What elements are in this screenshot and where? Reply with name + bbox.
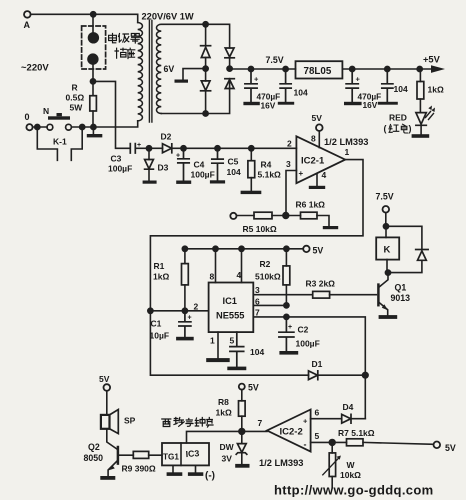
- svg-text:~220V: ~220V: [21, 63, 49, 74]
- svg-text:4: 4: [237, 270, 242, 280]
- resistor R1 1k: [153, 249, 188, 311]
- timer IC1 NE555: [209, 283, 254, 333]
- svg-text:R4: R4: [261, 160, 272, 170]
- svg-text:1kΩ: 1kΩ: [428, 84, 444, 94]
- LED RED: [412, 106, 435, 138]
- node: K-1 branch right: [80, 124, 85, 129]
- transformer core: [149, 21, 152, 123]
- svg-text:SP: SP: [124, 416, 136, 426]
- music IC TG1/IC3: [162, 443, 209, 465]
- node: bridge bottom left: [203, 111, 208, 116]
- svg-text:100µF: 100µF: [191, 170, 215, 180]
- wire: top wire to socket pin: [92, 14, 94, 32]
- wire: A to transformer primary top: [31, 14, 138, 22]
- op-amp U1b IC2-2: [258, 410, 311, 452]
- ground at bridge: [175, 69, 206, 83]
- diode D2: [149, 132, 184, 153]
- svg-text:C5: C5: [228, 157, 239, 167]
- svg-text:IC2-1: IC2-1: [301, 156, 325, 167]
- node: C3/D2/D3 junction: [146, 146, 151, 151]
- resistor R 0.5ohm 5W: [66, 81, 97, 126]
- svg-text:16V: 16V: [363, 100, 378, 110]
- diode bridge D-LB: [201, 81, 211, 91]
- svg-text:6: 6: [255, 297, 260, 307]
- svg-text:IC1: IC1: [223, 296, 237, 306]
- svg-text:Q1: Q1: [395, 283, 407, 293]
- node: R1/C1/pin2 junction: [182, 308, 187, 313]
- svg-text:100µF: 100µF: [108, 164, 132, 174]
- label: socket 电饭煲 插座: [109, 34, 140, 59]
- terminal: R5 input probe: [230, 213, 236, 219]
- ground IC3: [188, 465, 203, 476]
- svg-text:+5V: +5V: [423, 55, 441, 65]
- svg-text:NE555: NE555: [216, 311, 244, 321]
- capacitor 104 (input): [278, 66, 308, 104]
- pin 8 stub: [210, 249, 216, 283]
- resistor R3 2k: [306, 279, 377, 299]
- socket pin top: [88, 32, 99, 43]
- node: bridge mid left: [203, 66, 208, 71]
- diode bridge D-RT: [225, 48, 234, 58]
- svg-text:(-): (-): [205, 471, 215, 482]
- svg-text:8: 8: [210, 272, 215, 282]
- transistor Q2 8050: [84, 429, 118, 480]
- ground TG1: [167, 465, 183, 476]
- svg-text:220V/6V 1W: 220V/6V 1W: [142, 12, 194, 22]
- svg-text:R7 5.1kΩ: R7 5.1kΩ: [338, 428, 375, 438]
- capacitor C 470uF 16V (output): [344, 66, 381, 110]
- zener DW 3V: [220, 431, 250, 467]
- node: relay top: [383, 224, 388, 229]
- terminal 5V (555 rail): [303, 246, 323, 256]
- svg-text:A: A: [24, 20, 31, 30]
- resistor R5 10k: [237, 212, 301, 234]
- svg-text:R2: R2: [260, 259, 271, 269]
- svg-text:-: -: [304, 440, 307, 450]
- terminal 7.5V (relay): [376, 192, 394, 227]
- svg-text:TG1: TG1: [163, 453, 179, 462]
- svg-text:2: 2: [194, 302, 199, 312]
- svg-text:5V: 5V: [312, 113, 323, 123]
- wire: bridge right branch: [229, 58, 231, 89]
- node: pin4 top: [239, 246, 244, 251]
- wire: terminal 0 to switch N: [33, 126, 47, 128]
- capacitor 104 (output): [378, 66, 408, 104]
- potentiometer W 10k: [323, 442, 361, 487]
- node: pin7/C2: [284, 314, 289, 319]
- node: trigger line junction: [148, 308, 153, 313]
- svg-text:K: K: [384, 245, 391, 256]
- svg-text:3: 3: [255, 285, 260, 295]
- terminal 0: [25, 112, 33, 130]
- wire: signal line to op-amp: [184, 147, 297, 149]
- svg-text:+: +: [288, 324, 292, 331]
- svg-text:+: +: [137, 142, 141, 149]
- capacitor C2 100uF: [279, 317, 320, 355]
- label 西敏寺钟声: [162, 418, 213, 428]
- svg-text:C2: C2: [298, 325, 309, 335]
- node: pin8 top: [213, 246, 218, 251]
- svg-text:104: 104: [394, 84, 408, 94]
- svg-text:3V: 3V: [222, 454, 233, 464]
- wire: 7.5V rail: [230, 68, 432, 70]
- svg-text:7.5V: 7.5V: [376, 192, 394, 202]
- pin 6 wire: [311, 408, 342, 419]
- svg-text:+: +: [188, 315, 192, 322]
- wire: IC2-1 output to NE555 trigger: [150, 160, 363, 376]
- svg-text:1: 1: [210, 336, 215, 346]
- pin 7 wire: [253, 308, 286, 318]
- node: relay bottom / Q1 collector: [385, 270, 390, 275]
- node: R8/DW/IC3/pin7 junction: [239, 429, 245, 435]
- wire: 5V rail of NE555: [185, 248, 303, 250]
- diode D1: [309, 359, 366, 380]
- capacitor C5 104: [210, 146, 241, 184]
- svg-text:R9 390Ω: R9 390Ω: [122, 464, 156, 474]
- svg-text:IC2-2: IC2-2: [280, 427, 303, 438]
- svg-text:1: 1: [345, 147, 350, 157]
- svg-text:6V: 6V: [164, 64, 175, 74]
- svg-text:6: 6: [315, 408, 320, 418]
- svg-text:5.1kΩ: 5.1kΩ: [258, 170, 282, 180]
- socket pin bottom: [87, 53, 98, 64]
- svg-text:1kΩ: 1kΩ: [153, 272, 169, 282]
- svg-text:5V: 5V: [99, 374, 110, 384]
- node: pin5/R7/W junction: [329, 440, 335, 446]
- node: K-1 branch left: [35, 124, 40, 129]
- svg-text:DW: DW: [220, 442, 235, 452]
- socket (rice cooker) dashed box: [82, 26, 106, 69]
- svg-text:+: +: [356, 75, 361, 84]
- node: bridge top left: [203, 22, 208, 27]
- wire: secondary bottom to bridge: [161, 89, 229, 114]
- svg-text:): ): [409, 124, 412, 134]
- svg-text:D4: D4: [343, 402, 354, 412]
- svg-text:D3: D3: [158, 163, 169, 173]
- diode bridge D-LT: [201, 46, 211, 58]
- svg-text:510kΩ: 510kΩ: [255, 272, 281, 282]
- resistor R8 1k: [216, 390, 246, 432]
- svg-text:78L05: 78L05: [304, 66, 332, 77]
- node: R1 top: [182, 246, 187, 251]
- svg-text:W: W: [347, 460, 356, 470]
- speaker SP: [101, 410, 136, 434]
- node B: socket/R junction: [90, 79, 95, 84]
- capacitor C4 100uF: [176, 146, 215, 184]
- wire: bridge left branch: [205, 24, 207, 113]
- svg-text:1/2 LM393: 1/2 LM393: [324, 137, 368, 147]
- svg-text:10µF: 10µF: [150, 331, 170, 341]
- svg-text:+: +: [299, 169, 304, 178]
- svg-text:+: +: [254, 75, 259, 84]
- svg-text:C1: C1: [151, 319, 162, 329]
- pin 4 stub: [237, 249, 242, 283]
- node: R5/R6/pin3 junction: [283, 213, 289, 219]
- resistor R4 5.1k: [241, 146, 281, 194]
- svg-text:IC3: IC3: [185, 448, 199, 459]
- node: socket tap on top wire: [91, 12, 96, 17]
- svg-text:R3 2kΩ: R3 2kΩ: [306, 279, 336, 289]
- pin 3 wire to R3: [253, 285, 312, 295]
- pin 5 with capacitor 104: [227, 332, 264, 370]
- pin 3 wire of IC2-1: [286, 171, 296, 216]
- svg-text:100µF: 100µF: [296, 339, 320, 349]
- svg-text:R8: R8: [218, 397, 229, 407]
- transformer T secondary winding: [157, 24, 162, 113]
- svg-text:5V: 5V: [313, 246, 324, 256]
- +5V arrow: [423, 55, 445, 73]
- capacitor C3 100uF: [108, 142, 149, 174]
- svg-text:R5 10kΩ: R5 10kΩ: [243, 224, 277, 234]
- svg-text:(: (: [384, 124, 387, 134]
- svg-text:0: 0: [25, 112, 30, 122]
- pin 6 wire: [253, 297, 286, 307]
- svg-text:10kΩ: 10kΩ: [340, 470, 361, 480]
- svg-text:Q2: Q2: [88, 442, 100, 452]
- svg-text:104: 104: [227, 167, 241, 177]
- wire: IC3 to DW node: [187, 431, 242, 443]
- terminal 5V (R8): [239, 383, 259, 393]
- relay coil K: [376, 226, 399, 272]
- svg-text:R6 1kΩ: R6 1kΩ: [296, 200, 326, 210]
- svg-text:+: +: [176, 153, 180, 160]
- svg-text:C3: C3: [111, 154, 122, 164]
- node: R bottom junction: [91, 124, 96, 129]
- svg-text:D1: D1: [312, 359, 323, 369]
- switch N (pushbutton): [43, 106, 71, 130]
- svg-text:1/2 LM393: 1/2 LM393: [259, 458, 303, 468]
- wire: sense tap to C3: [93, 81, 130, 148]
- resistor R9 390: [119, 451, 162, 473]
- transformer T primary winding: [138, 23, 143, 121]
- svg-text:N: N: [43, 106, 49, 116]
- node: R2/pin6: [284, 303, 289, 308]
- wire: secondary top to bridge: [161, 24, 229, 48]
- wire: node to IC2-2 output: [242, 430, 267, 432]
- svg-text:5: 5: [230, 336, 235, 346]
- svg-text:5V: 5V: [445, 443, 456, 453]
- capacitor C 470uF 16V (input): [243, 66, 280, 110]
- pin 2 wire: [150, 302, 208, 312]
- svg-text:7: 7: [255, 308, 260, 318]
- svg-text:2: 2: [287, 139, 292, 149]
- wire: socket pin to node B: [92, 65, 94, 82]
- svg-text:16V: 16V: [261, 100, 276, 110]
- ground at R bottom: [87, 127, 103, 137]
- svg-text:C4: C4: [194, 160, 205, 170]
- svg-text:5V: 5V: [248, 383, 259, 393]
- relay contact K-1: [37, 127, 82, 160]
- svg-text:4: 4: [322, 170, 327, 180]
- svg-text:D2: D2: [161, 132, 172, 142]
- pin 5 wire: [311, 431, 347, 442]
- resistor 1k (LED): [417, 66, 444, 112]
- svg-text:104: 104: [250, 347, 264, 357]
- svg-text:104: 104: [294, 88, 308, 98]
- svg-text:3: 3: [286, 159, 291, 169]
- svg-text:0.5Ω: 0.5Ω: [66, 93, 85, 103]
- resistor R2 510k: [255, 249, 290, 306]
- node: R2 top: [284, 246, 289, 251]
- wire: switch to transformer primary bottom: [71, 121, 137, 127]
- terminal A: [24, 11, 31, 30]
- svg-text:+: +: [303, 417, 308, 426]
- node: D1/pin7/D4 junction: [363, 372, 369, 378]
- svg-text:1kΩ: 1kΩ: [216, 408, 232, 418]
- terminal 5V (speaker): [99, 374, 110, 415]
- wire: pin7 to D1/D4 junction: [286, 317, 365, 419]
- resistor R6 1k with ground: [296, 200, 339, 230]
- diode bridge D-RB: [225, 79, 234, 89]
- svg-text:8: 8: [311, 134, 316, 144]
- svg-text:R: R: [72, 83, 78, 93]
- capacitor C1 10uF: [150, 311, 194, 341]
- svg-text:R1: R1: [154, 261, 165, 271]
- svg-text:http://www.go-gddq.com: http://www.go-gddq.com: [274, 483, 434, 498]
- diode D3: [143, 148, 169, 183]
- pin 4 of IC2-1 with ground: [309, 170, 327, 189]
- regulator U2 78L05: [296, 61, 343, 78]
- pin 1 ground: [206, 332, 230, 362]
- svg-text:7.5V: 7.5V: [266, 55, 284, 65]
- flyback diode: [386, 226, 428, 272]
- terminal 5V (R7): [434, 442, 456, 454]
- transistor Q1 9013: [378, 273, 410, 319]
- pin 8 of IC2-1 with 5V terminal: [311, 113, 323, 148]
- diode D4: [342, 402, 366, 423]
- svg-text:RED: RED: [389, 113, 407, 123]
- op-amp U1a IC2-1: [286, 136, 350, 183]
- svg-text:5W: 5W: [70, 103, 84, 113]
- svg-text:9013: 9013: [391, 293, 411, 303]
- node: bridge mid right (7.5V): [227, 66, 232, 71]
- svg-text:8050: 8050: [84, 453, 104, 463]
- resistor R7 5.1k: [338, 428, 434, 446]
- svg-text:K-1: K-1: [53, 137, 67, 147]
- svg-text:5: 5: [315, 431, 320, 441]
- svg-text:7: 7: [258, 418, 263, 428]
